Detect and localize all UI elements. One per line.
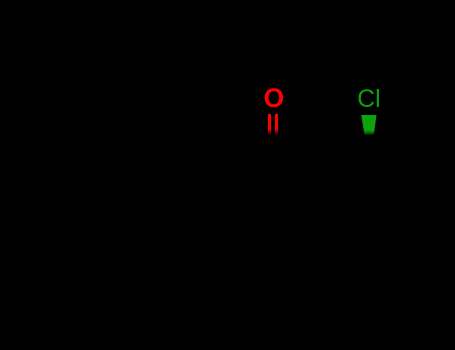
svg-text:Cl: Cl [357,86,380,113]
svg-text:O: O [264,83,285,113]
